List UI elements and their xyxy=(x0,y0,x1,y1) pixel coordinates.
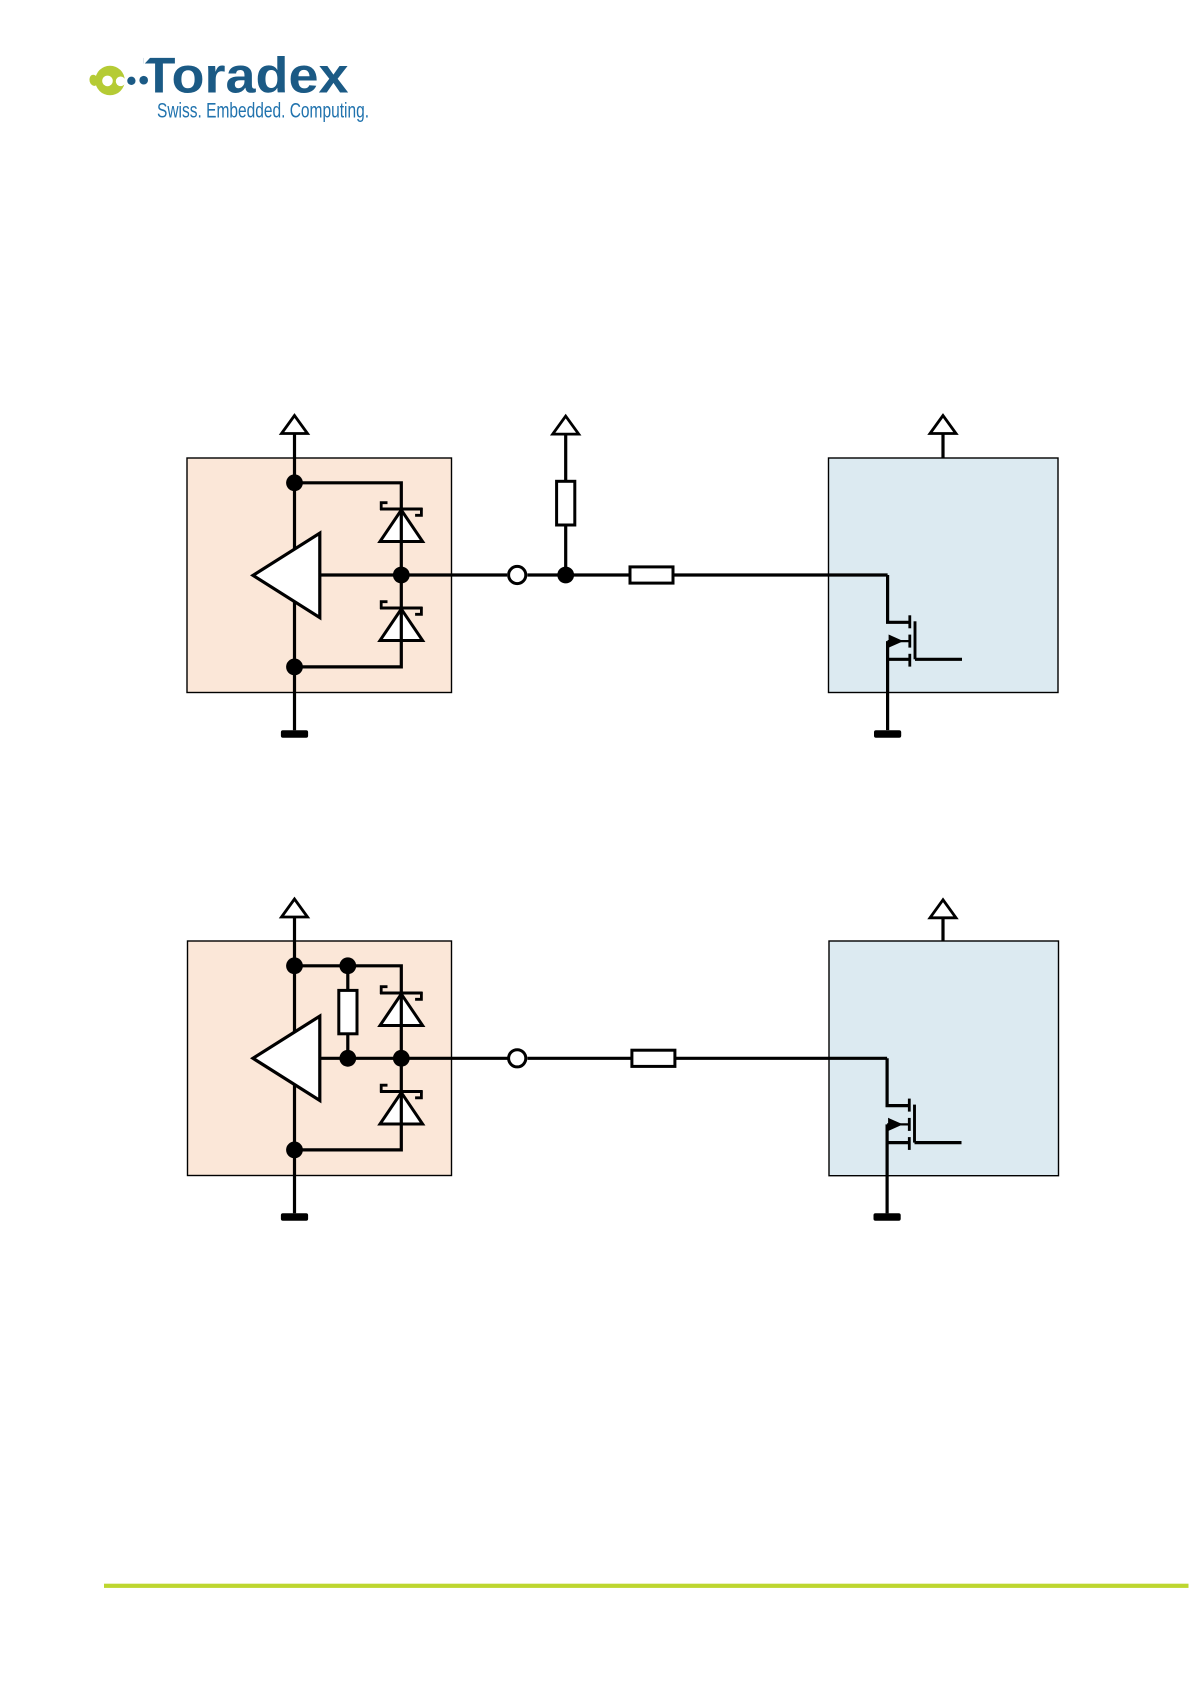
Toradex logo dot 2 xyxy=(139,76,148,85)
resistor R1 (pull-up) circuit 1 xyxy=(557,481,575,525)
SoM box (orange) circuit 1 xyxy=(187,458,452,693)
wire pin to pull-up node circuit 1 xyxy=(527,573,630,576)
wire carrier power stem circuit 2 xyxy=(941,918,944,941)
diode D1 (upper ESD) circuit 1 (Schottky diode, cathode up) xyxy=(380,503,423,542)
power symbol 3.3V (SoM) circuit 1 xyxy=(282,416,308,434)
wire top rail circuit 2 xyxy=(295,966,402,995)
transistor Q1 source lead xyxy=(888,658,910,661)
wire pull-up top circuit 1 xyxy=(564,434,567,481)
carrier-board box (blue) circuit 2 xyxy=(829,941,1059,1176)
wire bottom rail circuit 1 xyxy=(295,640,402,667)
ground (carrier) circuit 1 xyxy=(874,730,901,737)
footer rule (green) xyxy=(104,1584,1189,1588)
transistor Q1 source to ground wire xyxy=(886,641,889,730)
wire left vertical rail circuit 1 xyxy=(293,483,296,667)
svg-text:Toradex: Toradex xyxy=(143,48,349,104)
transistor Q1 gate lead xyxy=(888,575,910,622)
transistor Q2 gate plate xyxy=(913,1105,916,1143)
diode D4 (lower ESD) circuit 2 (Schottky diode, cathode up) xyxy=(380,1085,423,1124)
power symbol pull-up supply circuit 1 xyxy=(553,416,579,434)
pin (open circle) SODIMM pad circuit 2 xyxy=(509,1050,526,1067)
transistor Q1 channel segment (body) xyxy=(908,635,911,648)
wire pull-up bottom circuit 1 xyxy=(564,525,567,575)
wire internal pull-up bottom circuit 2 xyxy=(346,1034,349,1059)
wire power to rail circuit 1 xyxy=(293,434,296,483)
buffer U1 (output driver) circuit 1 xyxy=(253,533,320,617)
junction output node B circuit 2 xyxy=(393,1050,410,1067)
diode D2 (lower ESD) circuit 1 (Schottky diode, cathode up) xyxy=(380,602,423,641)
power symbol carrier supply circuit 1 xyxy=(930,416,956,434)
wire to carrier board circuit 2 xyxy=(675,1057,887,1060)
Toradex logo lemon left eye xyxy=(102,76,113,87)
wire rail to ground circuit 1 xyxy=(293,667,296,730)
junction pull-up node circuit 1 xyxy=(557,567,574,584)
junction output node circuit 1 xyxy=(393,567,410,584)
transistor Q1 body lead with arrow xyxy=(888,640,910,642)
transistor Q2 source to ground wire xyxy=(885,1124,888,1213)
transistor Q2 body lead with arrow xyxy=(887,1123,909,1125)
wire bottom rail circuit 2 xyxy=(295,1123,402,1150)
svg-text:Swiss. Embedded. Computing.: Swiss. Embedded. Computing. xyxy=(157,100,369,123)
transistor Q2 channel segment (body) xyxy=(908,1118,911,1131)
transistor Q2 drain lead xyxy=(915,1141,962,1144)
transistor Q2 source lead xyxy=(887,1141,909,1144)
Toradex logo dot 1 xyxy=(127,77,135,85)
transistor Q1 (N-channel MOSFET) xyxy=(888,575,962,730)
transistor Q2 channel segment (drain side) xyxy=(908,1099,911,1112)
wire power to rail circuit 2 xyxy=(293,917,296,966)
junction top rail B circuit 2 xyxy=(339,957,356,974)
wire left vertical rail circuit 2 xyxy=(293,966,296,1150)
resistor R2 (series) circuit 1 xyxy=(630,567,673,583)
transistor Q1 gate plate xyxy=(914,621,917,659)
wire buffer output circuit 1 xyxy=(320,573,507,576)
wire to carrier board circuit 1 xyxy=(673,573,888,576)
wire pin to series resistor circuit 2 xyxy=(527,1057,632,1060)
transistor Q1 channel segment (drain side) xyxy=(908,615,911,628)
pin (open circle) SODIMM pad circuit 1 xyxy=(509,566,526,583)
junction top rail A circuit 2 xyxy=(286,957,303,974)
buffer U2 (output driver) circuit 2 xyxy=(253,1016,320,1100)
resistor R3 (internal pull-up) circuit 2 xyxy=(339,990,357,1033)
wire internal pull-up top circuit 2 xyxy=(346,966,349,991)
carrier-board box (blue) circuit 1 xyxy=(829,458,1059,693)
Toradex logo lemon body xyxy=(95,66,125,96)
wire carrier power stem circuit 1 xyxy=(941,434,944,459)
transistor Q2 (N-channel MOSFET) xyxy=(887,1058,961,1213)
wire diode branch circuit 2 xyxy=(400,995,403,1123)
ground (SoM) circuit 2 xyxy=(281,1213,308,1220)
SoM box (orange) circuit 2 xyxy=(188,941,452,1176)
junction top rail circuit 1 xyxy=(286,474,303,491)
wire rail to ground circuit 2 xyxy=(293,1150,296,1213)
power symbol 3.3V (SoM) circuit 2 xyxy=(282,899,308,917)
wire diode branch circuit 1 xyxy=(400,511,403,640)
wire top rail circuit 1 xyxy=(295,483,402,511)
resistor R4 (series) circuit 2 xyxy=(632,1050,675,1066)
diode D3 (upper ESD) circuit 2 (Schottky diode, cathode up) xyxy=(380,987,423,1026)
ground (SoM) circuit 1 xyxy=(281,730,308,737)
transistor Q1 channel segment (source side) xyxy=(908,654,911,667)
junction output node A circuit 2 xyxy=(339,1050,356,1067)
power symbol carrier supply circuit 2 xyxy=(930,900,956,918)
transistor Q2 gate lead xyxy=(887,1058,909,1105)
Toradex logo lemon right eye xyxy=(116,77,126,87)
junction bottom rail circuit 2 xyxy=(286,1142,303,1159)
transistor Q1 drain lead xyxy=(915,658,962,661)
junction bottom rail circuit 1 xyxy=(286,659,303,676)
transistor Q2 channel segment (source side) xyxy=(908,1137,911,1150)
Toradex logo lemon nub xyxy=(88,74,99,87)
Toradex wordmark T slant cut xyxy=(143,56,151,65)
wire buffer output circuit 2 xyxy=(320,1057,508,1060)
ground (carrier) circuit 2 xyxy=(874,1213,901,1220)
